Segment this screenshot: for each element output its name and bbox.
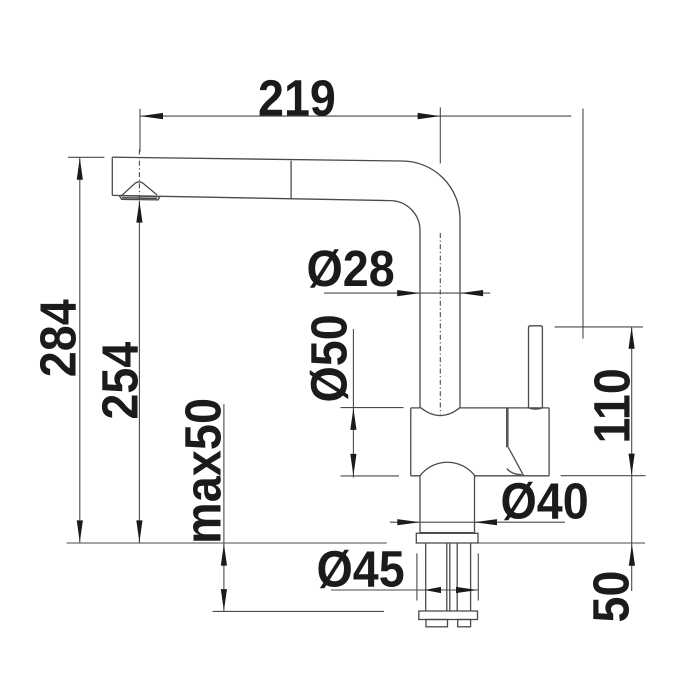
dim O28 line (324, 292, 490, 294)
handle diagonal edge (508, 447, 523, 476)
shank stud line (456, 543, 458, 611)
arrow max50 up (221, 544, 227, 566)
base cylinder right edge (474, 476, 476, 533)
dim 219 ext left (139, 109, 141, 152)
arrow O50 up (350, 408, 356, 430)
arrow O40 left (397, 519, 420, 525)
arrow 110 down (629, 454, 635, 476)
svg-text:284: 284 (31, 299, 87, 377)
dim O50 line (352, 329, 354, 478)
body bottom edge with base arch (411, 462, 549, 476)
countertop line right (478, 542, 645, 544)
svg-text:max50: max50 (176, 398, 232, 544)
dim max50 line (223, 404, 225, 611)
svg-text:Ø45: Ø45 (317, 542, 405, 598)
dim 110-50 line (631, 327, 633, 591)
arrow O40 right (474, 519, 497, 525)
arrow O28 left (397, 290, 420, 296)
dim O40 line (390, 521, 565, 523)
aerator dome (121, 182, 157, 196)
arrow 50 up (629, 544, 635, 566)
shank hose line 1 (446, 543, 448, 611)
handle lever rod (529, 326, 543, 408)
svg-text:Ø40: Ø40 (501, 474, 589, 530)
right reference line (582, 109, 584, 339)
svg-text:110: 110 (584, 368, 640, 443)
handle bottom arc (507, 469, 522, 475)
dim 110 ext bottom (561, 475, 646, 477)
handle seam line (506, 408, 508, 447)
base cylinder bottom edge (420, 532, 475, 534)
base cylinder left edge (419, 476, 421, 533)
arrow 110 up (629, 327, 635, 349)
mounting plate (419, 611, 478, 620)
handle seam line 2 (507, 408, 509, 447)
dim O45 ext right (477, 553, 479, 600)
centerline pipe (439, 233, 441, 415)
dim 110 ext top (555, 326, 644, 328)
shank tube right (470, 543, 472, 611)
arrow O45 right (456, 587, 478, 593)
arrow 219 left (140, 113, 163, 119)
dim 284 line (79, 158, 81, 543)
svg-text:219: 219 (258, 70, 336, 126)
arrow 254 top (136, 201, 142, 223)
dim O50 ext top (341, 407, 404, 409)
shank hose line 2 (449, 543, 451, 611)
spout arm outer edge with bend (112, 157, 460, 408)
arrow 219 right (418, 113, 441, 119)
spout left end cap (111, 157, 113, 195)
dim O45 line (331, 589, 478, 591)
svg-text:Ø28: Ø28 (307, 241, 395, 297)
arrow max50 down (221, 589, 227, 611)
arrow 254 bottom (136, 520, 142, 542)
spout arm inner edge with bend (112, 195, 420, 408)
aerator outlet plate (119, 196, 160, 200)
dim O50 ext bottom (341, 475, 400, 477)
arrow 284 bottom (77, 520, 83, 542)
svg-text:Ø50: Ø50 (302, 314, 358, 402)
handle lever rod base curve (529, 408, 543, 409)
dim 219 ext right (439, 107, 441, 163)
dim 284 ext tick (68, 156, 104, 158)
arrow O50 down (350, 454, 356, 476)
body top edge with concave rim (411, 408, 549, 416)
shank tube left (425, 543, 427, 611)
countertop line left (67, 542, 387, 544)
centerline aerator (138, 150, 140, 202)
arrow O45 left (424, 587, 441, 593)
spout joint line (290, 161, 292, 198)
body right edge (548, 408, 550, 476)
base flange (416, 533, 478, 543)
body left edge (410, 408, 412, 476)
arrow 284 top (77, 158, 83, 180)
mounting tab right (458, 620, 471, 627)
mounting tab left (426, 620, 448, 627)
arrow O28 right (460, 290, 483, 296)
svg-text:50: 50 (584, 571, 640, 623)
max50 bottom ref line (213, 610, 385, 612)
dim O45 ext left (416, 553, 418, 600)
svg-text:254: 254 (93, 342, 149, 420)
dim 254 line (138, 201, 140, 543)
aerator outlet inner line (122, 197, 157, 200)
dim 219 line (140, 115, 571, 117)
